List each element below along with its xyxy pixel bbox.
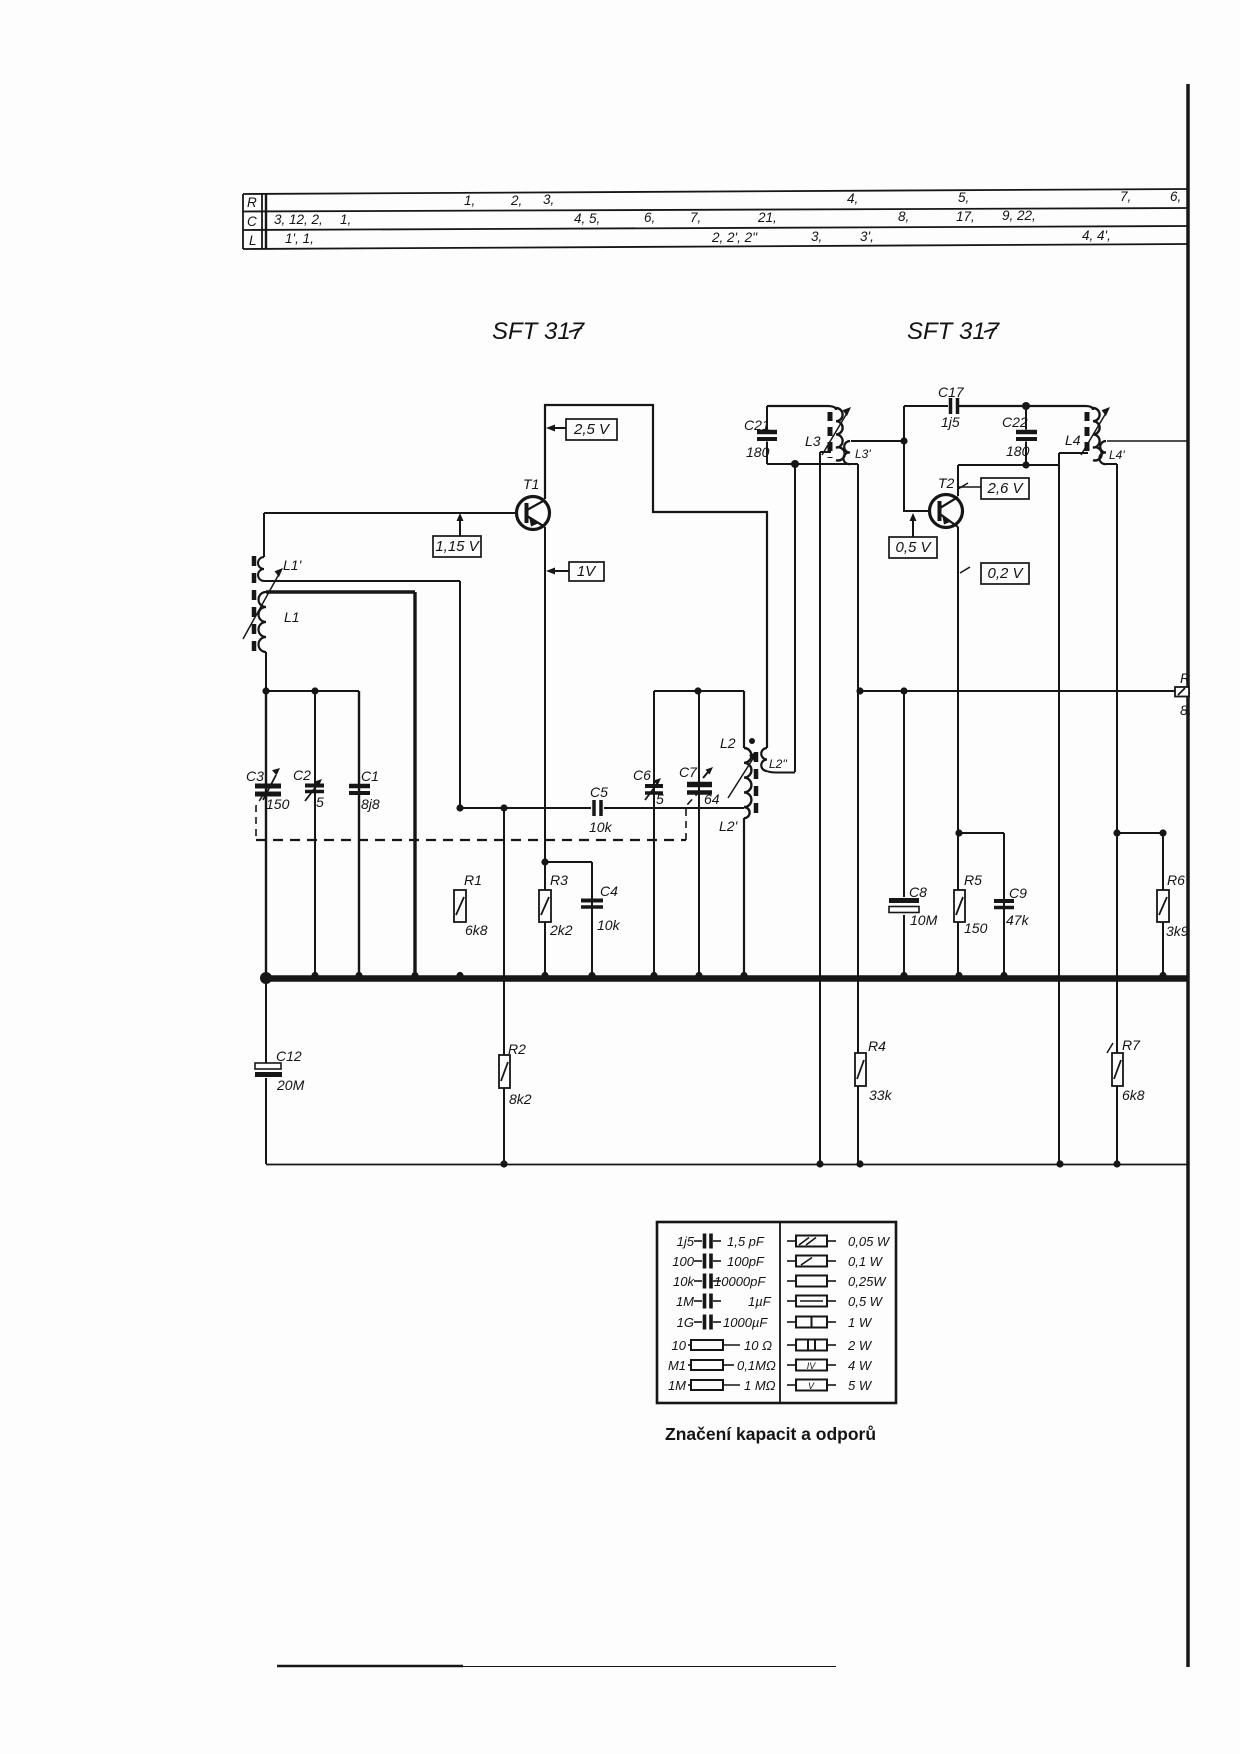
svg-text:C12: C12 <box>276 1048 302 1064</box>
svg-text:L2': L2' <box>719 818 739 834</box>
svg-text:1 W: 1 W <box>848 1315 873 1330</box>
svg-text:L3: L3 <box>805 433 821 449</box>
svg-text:47k: 47k <box>1006 912 1030 928</box>
svg-text:L3': L3' <box>855 447 871 461</box>
svg-text:R2: R2 <box>508 1041 526 1057</box>
svg-text:2,: 2, <box>510 193 522 208</box>
svg-text:33k: 33k <box>869 1087 893 1103</box>
svg-text:0,5 V: 0,5 V <box>895 539 932 556</box>
svg-text:1µF: 1µF <box>748 1294 772 1309</box>
svg-text:64: 64 <box>704 791 720 807</box>
svg-text:8,: 8, <box>898 209 909 224</box>
svg-text:1V: 1V <box>577 563 597 580</box>
svg-text:180: 180 <box>746 444 770 460</box>
svg-text:C7: C7 <box>679 764 698 780</box>
svg-text:R3: R3 <box>550 872 568 888</box>
svg-text:5: 5 <box>656 791 664 807</box>
svg-text:1,: 1, <box>464 193 475 208</box>
svg-text:6k8: 6k8 <box>465 922 488 938</box>
svg-text:2,5 V: 2,5 V <box>573 421 611 438</box>
svg-text:1G: 1G <box>677 1315 694 1330</box>
svg-text:C17: C17 <box>938 384 965 400</box>
svg-text:20M: 20M <box>276 1077 305 1093</box>
svg-text:8k2: 8k2 <box>509 1091 532 1107</box>
svg-text:1M: 1M <box>676 1294 694 1309</box>
svg-text:R1: R1 <box>464 872 482 888</box>
svg-text:17,: 17, <box>956 209 975 224</box>
svg-text:10M: 10M <box>910 912 938 928</box>
svg-text:10k: 10k <box>597 917 621 933</box>
svg-text:L1: L1 <box>284 609 300 625</box>
svg-text:1,15 V: 1,15 V <box>435 538 480 555</box>
svg-text:C5: C5 <box>590 784 608 800</box>
svg-text:9, 22,: 9, 22, <box>1002 208 1036 223</box>
svg-text:4,: 4, <box>847 191 858 206</box>
svg-text:T2: T2 <box>938 475 955 491</box>
svg-text:C21: C21 <box>744 417 770 433</box>
svg-text:10 Ω: 10 Ω <box>744 1338 772 1353</box>
svg-text:Značení kapacit a odporů: Značení kapacit a odporů <box>665 1424 876 1444</box>
svg-text:C1: C1 <box>361 768 379 784</box>
svg-text:4, 5,: 4, 5, <box>574 211 600 226</box>
svg-text:1j5: 1j5 <box>677 1234 695 1249</box>
svg-text:4, 4',: 4, 4', <box>1082 228 1111 243</box>
svg-text:8j8: 8j8 <box>361 796 380 812</box>
svg-text:R5: R5 <box>964 872 982 888</box>
svg-text:1,5 pF: 1,5 pF <box>727 1234 765 1249</box>
svg-text:2,6 V: 2,6 V <box>986 480 1024 497</box>
svg-text:3,: 3, <box>543 192 554 207</box>
svg-text:C2: C2 <box>293 767 311 783</box>
svg-text:7,: 7, <box>1120 189 1131 204</box>
svg-text:2 W: 2 W <box>847 1338 873 1353</box>
svg-text:5: 5 <box>316 794 324 810</box>
svg-text:C4: C4 <box>600 883 618 899</box>
svg-text:150: 150 <box>964 920 988 936</box>
svg-text:3, 12, 2,: 3, 12, 2, <box>274 212 323 227</box>
svg-text:C: C <box>247 214 257 229</box>
svg-text:0,05 W: 0,05 W <box>848 1234 891 1249</box>
svg-text:T1: T1 <box>523 476 539 492</box>
svg-text:R4: R4 <box>868 1038 886 1054</box>
svg-text:L4: L4 <box>1065 432 1081 448</box>
svg-text:0,25W: 0,25W <box>848 1274 887 1289</box>
svg-text:0,2 V: 0,2 V <box>987 565 1024 582</box>
svg-text:R6: R6 <box>1167 872 1185 888</box>
svg-text:C22: C22 <box>1002 414 1028 430</box>
svg-text:100pF: 100pF <box>727 1254 765 1269</box>
svg-text:6,: 6, <box>644 210 655 225</box>
svg-text:L1': L1' <box>283 557 303 573</box>
svg-text:1j5: 1j5 <box>941 414 960 430</box>
svg-text:5,: 5, <box>958 190 969 205</box>
svg-text:10000pF: 10000pF <box>714 1274 766 1289</box>
svg-text:C9: C9 <box>1009 885 1027 901</box>
svg-text:1,: 1, <box>340 212 351 227</box>
svg-text:5 W: 5 W <box>848 1378 873 1393</box>
svg-text:0,1MΩ: 0,1MΩ <box>737 1358 776 1373</box>
svg-text:3,: 3, <box>811 229 822 244</box>
svg-text:180: 180 <box>1006 443 1030 459</box>
svg-text:10k: 10k <box>673 1274 695 1289</box>
svg-text:1000µF: 1000µF <box>723 1315 768 1330</box>
svg-text:1', 1,: 1', 1, <box>285 231 314 246</box>
svg-text:1M: 1M <box>668 1378 686 1393</box>
svg-text:L4': L4' <box>1109 448 1125 462</box>
svg-text:L: L <box>249 233 257 248</box>
svg-text:L2'': L2'' <box>769 757 788 771</box>
svg-text:0,5 W: 0,5 W <box>848 1294 884 1309</box>
svg-text:0,1 W: 0,1 W <box>848 1254 884 1269</box>
svg-text:10k: 10k <box>589 819 613 835</box>
svg-text:7,: 7, <box>690 210 701 225</box>
svg-text:V: V <box>808 1381 815 1391</box>
svg-text:4 W: 4 W <box>848 1358 873 1373</box>
svg-text:C8: C8 <box>909 884 927 900</box>
svg-text:3',: 3', <box>860 229 874 244</box>
svg-text:C6: C6 <box>633 767 651 783</box>
svg-text:R: R <box>1180 670 1190 686</box>
svg-text:2, 2', 2'': 2, 2', 2'' <box>711 230 758 245</box>
svg-text:3k9: 3k9 <box>1166 923 1189 939</box>
svg-text:1 MΩ: 1 MΩ <box>744 1378 776 1393</box>
svg-text:M1: M1 <box>668 1358 686 1373</box>
svg-text:C3: C3 <box>246 768 264 784</box>
svg-text:10: 10 <box>672 1338 687 1353</box>
svg-text:R: R <box>247 195 257 210</box>
svg-text:2k2: 2k2 <box>549 922 573 938</box>
svg-text:L2: L2 <box>720 735 736 751</box>
svg-text:IV: IV <box>807 1361 817 1371</box>
svg-text:6k8: 6k8 <box>1122 1087 1145 1103</box>
svg-text:100: 100 <box>672 1254 694 1269</box>
svg-text:R7: R7 <box>1122 1037 1141 1053</box>
svg-text:6,: 6, <box>1170 189 1181 204</box>
svg-text:150: 150 <box>266 796 290 812</box>
svg-text:21,: 21, <box>757 210 777 225</box>
svg-text:8,: 8, <box>1180 702 1192 718</box>
